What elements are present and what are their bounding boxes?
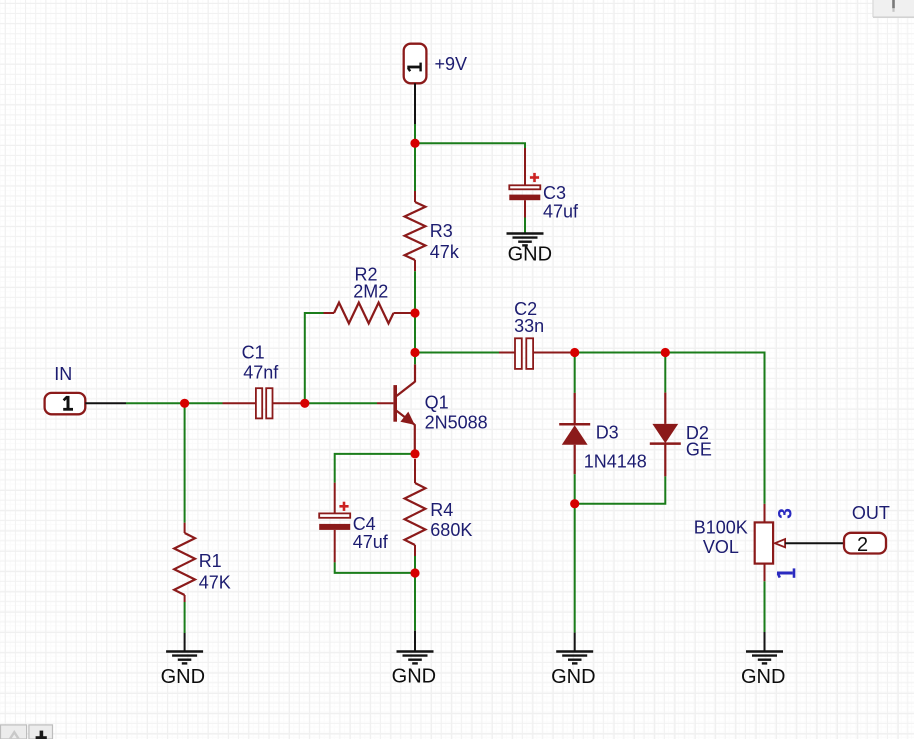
junction node +9V rail [410, 139, 419, 148]
capacitor C3 47uf (electrolytic) [509, 148, 540, 218]
junction node emitter [410, 449, 419, 458]
svg-text:2N5088: 2N5088 [425, 413, 488, 433]
pin number 1 (pot bottom) [777, 568, 794, 577]
potentiometer RP B100K VOL [755, 504, 785, 581]
diode D2 GE (cathode down) [650, 393, 681, 477]
wire +9V horizontal to C3 [415, 143, 525, 150]
UI: bottom-left button (plus) [29, 725, 53, 739]
wire +9V vertical to junction [414, 124, 416, 145]
wire R2 junction down to collector node [414, 313, 416, 353]
svg-text:R3: R3 [430, 221, 453, 241]
transistor Q1 2N5088 (NPN) [377, 364, 415, 450]
wire IN to C1 [126, 402, 223, 404]
junction node C1/R2 [300, 399, 309, 408]
junction node D2 tap [661, 348, 670, 357]
wire collector node to Q1 (green stub) [414, 353, 416, 365]
diode D3 1N4148 (cathode up) [559, 393, 590, 474]
svg-text:33n: 33n [514, 316, 544, 336]
wire pot to ground [764, 581, 766, 632]
junction node R2/R3 [410, 308, 419, 317]
UI: bottom-left button (collapse caret) [1, 725, 27, 739]
svg-text:GND: GND [551, 666, 595, 688]
ground symbol (R4 / Q1 emitter) [397, 631, 434, 664]
svg-text:C3: C3 [543, 183, 566, 203]
wire D3 node to ground [574, 504, 576, 633]
capacitor C1 47nf [223, 388, 305, 418]
svg-text:C4: C4 [353, 514, 376, 534]
svg-text:1N4148: 1N4148 [584, 452, 647, 472]
svg-text:OUT: OUT [852, 503, 890, 523]
junction node IN/R1 [180, 399, 189, 408]
svg-text:GE: GE [686, 440, 712, 460]
svg-text:2: 2 [857, 534, 868, 556]
svg-text:47uf: 47uf [543, 202, 579, 222]
wire R2 left corner down to C1 node [305, 313, 324, 403]
wire D2 node to volume pot corner [665, 353, 764, 504]
svg-text:C1: C1 [242, 342, 265, 362]
svg-text:3: 3 [776, 508, 797, 519]
capacitor C4 47uf (electrolytic) [319, 483, 350, 563]
wire C3 to ground [524, 218, 526, 233]
wire D2 node down [664, 353, 666, 393]
wire D3 node down [574, 353, 576, 393]
wire R1 to ground [184, 602, 186, 633]
svg-text:GND: GND [161, 666, 205, 688]
wire collector node to C2 [415, 352, 499, 354]
net port IN (pin 1) [45, 393, 86, 414]
svg-text:R4: R4 [430, 500, 453, 520]
wire pot wiper to OUT port (black) [785, 542, 844, 544]
pin wire from IN port (black) [85, 402, 126, 404]
svg-text:47nf: 47nf [243, 363, 279, 383]
svg-text:Q1: Q1 [425, 393, 449, 413]
wire +9V junction down to R3 [414, 143, 416, 191]
junction node D3 bottom [570, 499, 579, 508]
ground symbol (D3) [556, 633, 593, 664]
svg-text:D3: D3 [596, 423, 619, 443]
wire C4 bottom to R4 node [335, 562, 415, 573]
wire R3 to R2 junction [414, 271, 416, 313]
svg-text:47K: 47K [199, 573, 231, 593]
resistor R4 680K [405, 459, 426, 556]
svg-text:680K: 680K [430, 520, 472, 540]
wire IN junction down to R1 [184, 403, 186, 522]
ground symbol (pot) [746, 632, 783, 663]
wire R4 node to ground [414, 573, 416, 631]
svg-text:47uf: 47uf [353, 532, 389, 552]
svg-text:GND: GND [392, 666, 436, 688]
svg-text:GND: GND [508, 244, 552, 266]
ground symbol (C3) [507, 234, 544, 246]
svg-text:R1: R1 [199, 551, 222, 571]
svg-text:GND: GND [741, 666, 785, 688]
wire D3 to its bottom node [574, 474, 576, 504]
svg-text:IN: IN [54, 364, 72, 384]
svg-text:B100K: B100K [694, 518, 748, 538]
capacitor C2 33n [499, 338, 575, 369]
resistor R3 47k [405, 191, 426, 271]
junction node collector [410, 348, 419, 357]
wire R4 to its bottom node [414, 556, 416, 573]
net port +9V (pin 1) [404, 44, 427, 84]
junction node R4 bottom [410, 568, 419, 577]
junction node C2/D3 [570, 348, 579, 357]
wire C1 to Q1 base [305, 402, 377, 404]
svg-text:2M2: 2M2 [353, 281, 388, 301]
ground symbol (R1) [166, 633, 203, 663]
svg-text:VOL: VOL [703, 537, 739, 557]
wire D3 node to D2 bottom [575, 476, 666, 503]
wire C2 to D3 node [575, 352, 666, 354]
svg-text:47k: 47k [430, 242, 460, 262]
svg-text:+9V: +9V [435, 54, 468, 74]
resistor R2 2M2 [324, 303, 416, 324]
wire emitter node left and down to C4 [335, 454, 415, 483]
UI: top-right scrollbar box [873, 0, 914, 17]
pin wire from +9V port (black) [414, 83, 416, 124]
resistor R1 47K [174, 523, 195, 602]
net port OUT (pin 2) [844, 533, 886, 556]
